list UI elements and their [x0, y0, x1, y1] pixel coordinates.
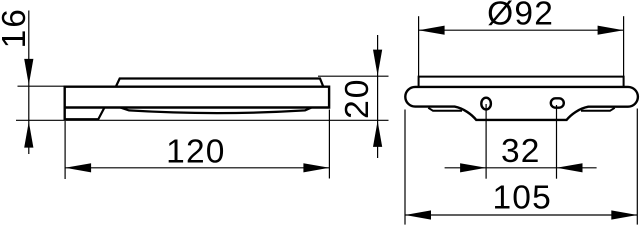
- dim 105 extension line right: [636, 109, 638, 225]
- dim 16 arrow down: [24, 59, 33, 85]
- svg-text:105: 105: [492, 179, 552, 216]
- front view underside line left: [428, 108, 462, 111]
- dim 16 extension line top: [18, 85, 64, 87]
- dim 120 dimension line: [65, 167, 329, 169]
- front view dish plate rim: [419, 77, 624, 88]
- svg-text:120: 120: [166, 134, 226, 171]
- dim 92 arrow right: [598, 26, 624, 35]
- dim 20 arrow down: [373, 50, 382, 76]
- dim 105 dimension line: [405, 214, 637, 216]
- dim 32 dimension line: [445, 167, 597, 169]
- front view right slot hole: [551, 98, 564, 107]
- dim 105 arrow right: [611, 210, 637, 219]
- dim 20 dimension line: [377, 35, 379, 158]
- svg-text:16: 16: [0, 7, 33, 48]
- dim 105 arrow left: [405, 210, 431, 219]
- dim 32 arrow pointing right: [460, 163, 486, 172]
- dim 20 arrow up: [373, 121, 382, 147]
- dim 92 dimension line: [419, 29, 624, 31]
- dim 32 extension line left: [485, 104, 487, 179]
- dim 32 arrow pointing left: [557, 163, 583, 172]
- side view body outline: [65, 87, 329, 120]
- dim 120 extension line right: [328, 110, 330, 179]
- front view underside line right: [581, 108, 615, 111]
- front view left screw hole: [481, 98, 491, 110]
- dim 92 arrow left: [419, 26, 445, 35]
- dim 92 extension line right: [623, 16, 625, 76]
- side view dish underside: [121, 108, 312, 114]
- side view mounting foot: [64, 108, 105, 120]
- dim 120 arrow left: [65, 163, 91, 172]
- svg-text:32: 32: [501, 133, 541, 170]
- dim 105 extension line left: [404, 110, 406, 225]
- dim 16/20 shared extension line bottom: [16, 119, 389, 121]
- dim 20 extension line top: [318, 75, 389, 77]
- svg-text:20: 20: [339, 78, 376, 119]
- svg-text:Ø92: Ø92: [487, 0, 554, 33]
- front view bracket outline: [405, 87, 638, 120]
- dim 16 arrow up: [24, 122, 33, 148]
- dim 16 dimension line: [28, 11, 30, 155]
- dim 120 extension line left: [64, 121, 66, 179]
- dim 32 extension line right: [556, 105, 558, 179]
- dim 92 extension line left: [418, 16, 420, 76]
- side view dish plate: [116, 79, 323, 87]
- dim 120 arrow right: [303, 163, 329, 172]
